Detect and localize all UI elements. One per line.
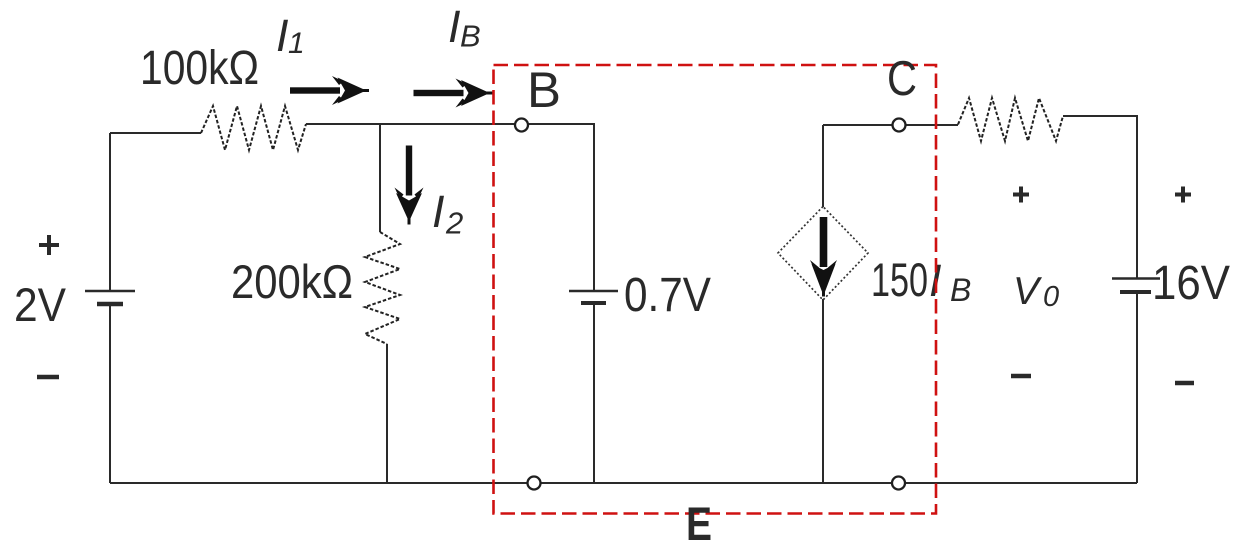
resistor R3 (collector) zigzag — [958, 98, 1063, 141]
wire resistor to right branch — [1063, 116, 1137, 278]
arrow I1 — [290, 76, 369, 105]
svg-text:C: C — [887, 52, 917, 106]
minus sign 2V — [37, 375, 59, 379]
wire vertical branch to 200k — [379, 124, 381, 232]
resistor R2 200k zigzag — [365, 232, 400, 344]
svg-text:B: B — [460, 19, 481, 54]
svg-text:B: B — [950, 272, 971, 308]
bottom wire — [110, 482, 1137, 484]
svg-text:I: I — [276, 10, 289, 61]
wire left vertical (2V branch) — [109, 133, 111, 483]
svg-text:2V: 2V — [14, 278, 67, 331]
plus sign 2V — [39, 235, 59, 255]
wire 200k to bottom — [386, 344, 388, 483]
svg-text:2: 2 — [445, 206, 463, 241]
resistor R1 100k zigzag — [201, 106, 306, 150]
plus sign V0 — [1013, 187, 1029, 203]
wire 16V to bottom — [1136, 292, 1138, 483]
svg-text:0.7V: 0.7V — [624, 269, 711, 322]
wire 0.7V to bottom — [593, 303, 595, 483]
wire C branch top — [823, 124, 958, 126]
svg-text:E: E — [686, 497, 712, 542]
svg-text:I: I — [448, 1, 461, 52]
svg-text:I: I — [432, 186, 445, 237]
arrow IB — [414, 79, 493, 108]
node E terminal right — [892, 477, 905, 490]
arrow inside dependent source — [810, 217, 837, 297]
battery 0.7V — [569, 290, 618, 292]
svg-text:16V: 16V — [1152, 257, 1230, 310]
wire into dependent source — [822, 125, 824, 483]
plus sign 16V — [1175, 187, 1191, 203]
svg-text:100kΩ: 100kΩ — [140, 42, 259, 95]
node C terminal — [893, 119, 906, 132]
svg-text:200kΩ: 200kΩ — [231, 255, 353, 308]
svg-text:1: 1 — [288, 27, 305, 60]
minus sign V0 — [1011, 374, 1031, 378]
dashed box (transistor model boundary) — [494, 65, 937, 514]
node E terminal left — [528, 477, 541, 490]
svg-text:V: V — [1013, 270, 1043, 313]
arrow I2 — [395, 146, 424, 225]
dependent source U1 diamond — [778, 207, 868, 301]
svg-text:B: B — [527, 62, 561, 118]
minus sign 16V — [1175, 381, 1194, 385]
battery V2 16V — [1112, 277, 1160, 279]
wire resistor to node B and on to 0.7V branch — [306, 124, 594, 291]
node B terminal — [515, 119, 528, 132]
battery V1 2V — [85, 290, 135, 292]
svg-text:150: 150 — [871, 253, 928, 306]
wire top-left horizontal to resistor — [110, 132, 201, 134]
svg-text:0: 0 — [1043, 281, 1059, 313]
